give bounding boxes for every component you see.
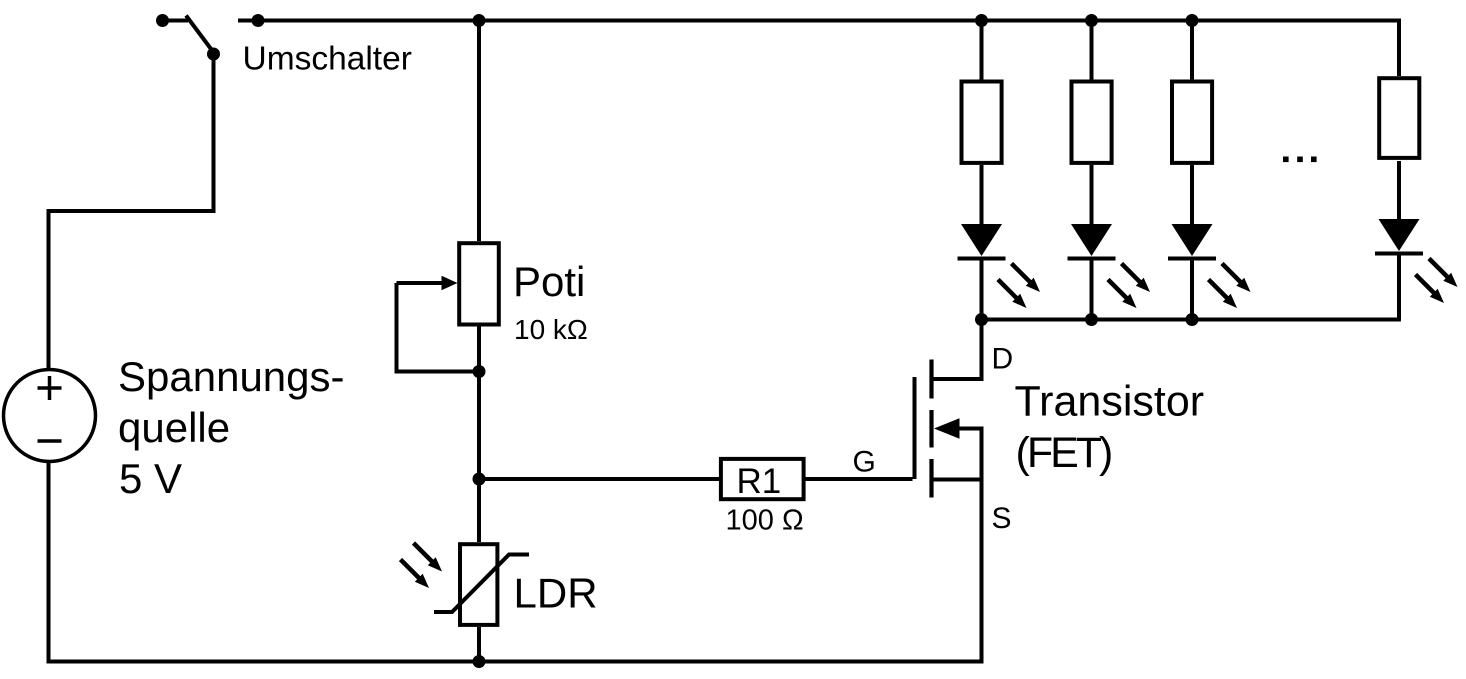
node: top rail start junction dot bbox=[252, 14, 265, 27]
wire: LED branch 2 resistor to LED bbox=[1090, 165, 1094, 226]
wire: top rail down to poti bbox=[477, 21, 481, 242]
wire: LED branch 4 resistor to LED bbox=[1397, 161, 1401, 221]
LED D2 triangle bbox=[1071, 224, 1112, 256]
wire: top supply rail bbox=[238, 19, 1401, 23]
LDR light arrow 1 bbox=[414, 543, 443, 572]
LED D1 light arrows bbox=[1012, 264, 1041, 293]
node: wiper / column junction dot bbox=[473, 365, 486, 378]
wire: LED D3 to cathode rail bbox=[1190, 259, 1194, 320]
resistor body LED branch 1 bbox=[962, 82, 1002, 163]
transistor T1 substrate arrowhead bbox=[934, 418, 960, 439]
svg-text:Transistor: Transistor bbox=[1015, 378, 1205, 426]
switch S1 Umschalter: pole contact dot bbox=[156, 14, 169, 27]
potentiometer P1 body bbox=[459, 243, 499, 324]
resistor body LED branch 3 bbox=[1172, 82, 1212, 163]
wire: drain tap up to LED rail bbox=[932, 320, 982, 380]
LED D4 cathode bar bbox=[1375, 252, 1423, 256]
wire: LED branch 2 top bbox=[1090, 21, 1094, 81]
wire: LED branch 3 resistor to LED bbox=[1190, 165, 1194, 226]
wire: R1 to gate bbox=[806, 477, 913, 481]
voltage source V1 minus sign bbox=[38, 439, 62, 443]
wire: poti bottom through junctions to LDR bbox=[477, 326, 481, 542]
node: bottom rail / LDR junction dot bbox=[473, 655, 486, 668]
voltage source V1 plus sign bbox=[38, 386, 62, 390]
LED D2 cathode bar bbox=[1068, 257, 1116, 261]
node: cathode rail junction dot 2 bbox=[1085, 313, 1098, 326]
wire: LED branch 3 top bbox=[1190, 21, 1194, 81]
svg-text:100 Ω: 100 Ω bbox=[726, 505, 804, 537]
node: top rail / LED branch 2 junction dot bbox=[1085, 14, 1098, 27]
transistor T1 channel dash middle bbox=[929, 410, 933, 448]
potentiometer P1 wiper arrow bbox=[397, 281, 445, 285]
resistor body LED branch 4 bbox=[1379, 78, 1419, 158]
transistor T1 substrate arrow wire bbox=[957, 429, 982, 480]
wire: LED D4 to cathode rail bbox=[1397, 254, 1401, 320]
voltage source V1 circle bbox=[4, 370, 96, 462]
wire: bottom return rail bbox=[47, 660, 984, 664]
LED D3 light arrows bbox=[1222, 264, 1251, 293]
transistor T1 gate bar bbox=[913, 377, 917, 479]
svg-text:quelle: quelle bbox=[118, 404, 230, 451]
wire: divider tap to R1 bbox=[479, 477, 719, 481]
transistor T1 channel dash bottom bbox=[929, 459, 933, 498]
LED D1 cathode bar bbox=[958, 257, 1006, 261]
node: cathode rail junction dot 3 bbox=[1186, 313, 1199, 326]
wire: LED cathode rail to drain bbox=[982, 318, 1401, 322]
wire: LDR bottom to bottom rail bbox=[477, 627, 481, 662]
wire: wiper loop to lower poti terminal bbox=[397, 283, 480, 372]
ellipsis: more LED branches bbox=[1283, 157, 1289, 163]
switch S1: lever bbox=[186, 16, 214, 54]
wire: LED branch 1 top bbox=[980, 21, 984, 81]
wire: LED D1 to cathode rail bbox=[980, 259, 984, 320]
switch S1: common contact dot bbox=[207, 48, 220, 61]
svg-text:R1: R1 bbox=[737, 462, 782, 501]
svg-text:G: G bbox=[853, 446, 876, 479]
LED D1 triangle bbox=[961, 224, 1002, 256]
svg-text:LDR: LDR bbox=[514, 570, 598, 617]
wire: switch common down-left to voltage source plus bbox=[49, 54, 214, 370]
wire: voltage source minus to bottom rail bbox=[47, 462, 51, 662]
LED D2 light arrows bbox=[1122, 264, 1151, 293]
svg-text:(FET): (FET) bbox=[1016, 429, 1112, 477]
LED D3 cathode bar bbox=[1168, 257, 1216, 261]
svg-text:D: D bbox=[992, 343, 1014, 376]
svg-text:Spannungs-: Spannungs- bbox=[118, 353, 345, 400]
node: divider tap junction dot (to R1) bbox=[473, 473, 486, 486]
svg-text:10 kΩ: 10 kΩ bbox=[514, 314, 588, 345]
svg-text:Umschalter: Umschalter bbox=[243, 41, 412, 78]
node: cathode rail junction dot 1 bbox=[975, 313, 988, 326]
LED D4 light arrows bbox=[1429, 259, 1458, 288]
resistor R1 body bbox=[721, 459, 804, 499]
resistor body LED branch 2 bbox=[1072, 82, 1112, 163]
node: top rail / LED branch 3 junction dot bbox=[1186, 14, 1199, 27]
node: top rail / poti column junction dot bbox=[473, 14, 486, 27]
LED D3 triangle bbox=[1172, 224, 1213, 256]
wire: LED D2 to cathode rail bbox=[1090, 259, 1094, 320]
wire: LED branch 1 resistor to LED bbox=[980, 165, 984, 226]
svg-text:5 V: 5 V bbox=[119, 455, 182, 502]
LDR diagonal stroke bbox=[434, 555, 529, 613]
transistor T1 channel dash top bbox=[929, 360, 933, 399]
switch S1: pole stub wire bbox=[163, 19, 189, 23]
LDR body bbox=[460, 544, 497, 625]
svg-text:Poti: Poti bbox=[513, 258, 585, 305]
wire: source tap down to bottom rail bbox=[932, 480, 982, 662]
LED D4 triangle bbox=[1379, 219, 1420, 251]
svg-text:S: S bbox=[992, 502, 1012, 535]
LDR light arrow 2 bbox=[401, 560, 430, 589]
wire: LED branch 4 top (right edge) bbox=[1397, 21, 1401, 77]
node: top rail / LED branch 1 junction dot bbox=[975, 14, 988, 27]
